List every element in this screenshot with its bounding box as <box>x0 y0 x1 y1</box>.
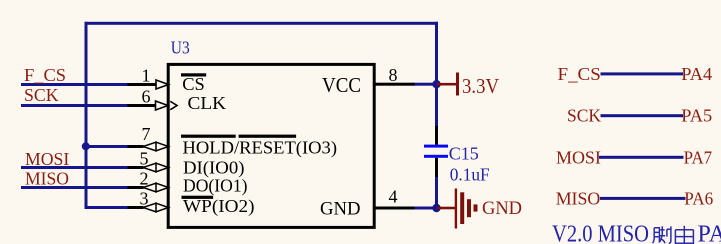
pin 3 IO bowtie arrow <box>143 203 169 212</box>
annotation glyph you (by) <box>675 226 693 243</box>
IC U3 body outline <box>168 64 374 227</box>
svg-text:F_CS: F_CS <box>24 65 66 85</box>
ground symbol bar 2 <box>460 192 464 224</box>
pin name HOLD overline <box>181 135 236 138</box>
svg-text:PA5: PA5 <box>681 106 712 126</box>
capacitor C15 top lead <box>435 126 438 145</box>
pin 1 stub (CS) <box>128 83 157 86</box>
pin 7 stub (HOLD/RESET) <box>128 145 144 148</box>
svg-text:PA: PA <box>698 222 721 244</box>
svg-text:PA4: PA4 <box>681 64 712 84</box>
pin 4 stub (GND) <box>374 207 415 210</box>
pin 3 stub (WP) <box>128 206 144 209</box>
svg-text:0.1uF: 0.1uF <box>450 165 490 185</box>
ground symbol bar 1 <box>455 189 457 229</box>
wire: SCK to PA5 <box>601 114 684 117</box>
pin 5 IO bowtie arrow <box>143 163 169 172</box>
pin 1 input arrow <box>156 80 169 89</box>
svg-text:7: 7 <box>142 124 151 144</box>
wire: pin3 segment from left vertical corner <box>85 206 128 209</box>
svg-text:DO(IO1): DO(IO1) <box>183 176 248 197</box>
junction at GND <box>432 204 440 212</box>
svg-text:HOLD/RESET(IO3): HOLD/RESET(IO3) <box>183 138 338 159</box>
pin 8 stub (VCC) <box>374 83 415 86</box>
pin 6 stub (CLK) <box>128 104 156 107</box>
wire: right vertical below capacitor <box>435 177 438 210</box>
wire: right vertical net (VCC to cap to GND) <box>435 22 438 127</box>
wire: pin8 to 3.3V junction <box>414 83 437 86</box>
svg-text:SCK: SCK <box>24 85 59 105</box>
pin 2 IO bowtie arrow <box>143 183 169 192</box>
ground symbol bar 3 <box>467 199 471 217</box>
power symbol 3.3V lead <box>437 83 457 86</box>
svg-text:SCK: SCK <box>567 106 601 126</box>
svg-text:CLK: CLK <box>188 93 227 113</box>
svg-text:GND: GND <box>482 198 522 219</box>
wire: MOSI to PA7 <box>599 156 684 159</box>
pin 7 IO bowtie arrow <box>143 142 169 151</box>
svg-text:U3: U3 <box>171 38 190 58</box>
wire: F_CS to PA4 <box>601 72 684 75</box>
pin name RESET overline <box>239 135 297 138</box>
capacitor C15 top plate <box>424 145 448 148</box>
svg-text:F_CS: F_CS <box>558 64 601 84</box>
svg-text:4: 4 <box>389 187 398 207</box>
annotation glyph jiao (foot) <box>653 226 671 243</box>
junction at pin7 tap <box>82 142 90 150</box>
svg-text:GND: GND <box>320 199 361 220</box>
wire: pin7 tap from left vertical <box>85 145 128 148</box>
svg-text:MOSI: MOSI <box>556 147 601 167</box>
svg-text:3: 3 <box>140 189 149 209</box>
capacitor C15 bottom plate <box>424 155 448 158</box>
svg-text:V2.0 MISO: V2.0 MISO <box>552 222 649 244</box>
wire: top horizontal net (3.3V rail) <box>85 22 439 25</box>
wire: MISO to PA6 <box>600 197 686 200</box>
svg-text:3.3V: 3.3V <box>462 74 499 98</box>
pin name CS overline <box>181 73 206 76</box>
svg-text:PA6: PA6 <box>684 188 713 208</box>
svg-text:MISO: MISO <box>556 188 601 208</box>
svg-text:VCC: VCC <box>322 73 361 97</box>
svg-text:8: 8 <box>389 65 398 85</box>
pin 2 stub (DO) <box>128 186 144 189</box>
svg-text:MOSI: MOSI <box>25 149 69 169</box>
svg-text:PA7: PA7 <box>684 147 713 167</box>
wire: F_CS net <box>21 83 128 86</box>
pin 6 input arrow <box>156 101 169 110</box>
capacitor C15 bottom lead <box>435 158 438 177</box>
pin 5 stub (DI) <box>128 166 144 169</box>
svg-text:C15: C15 <box>449 144 479 164</box>
wire: left vertical net (WP/HOLD net) <box>85 22 88 209</box>
svg-text:5: 5 <box>140 149 149 169</box>
wire: MOSI net <box>21 166 128 169</box>
ground symbol lead <box>437 207 456 210</box>
svg-text:CS: CS <box>182 74 205 94</box>
svg-text:1: 1 <box>142 66 151 86</box>
wire: MISO net <box>21 186 128 189</box>
svg-text:6: 6 <box>142 87 151 107</box>
pin 6 clock wedge <box>170 101 177 109</box>
ground symbol bar 4 <box>474 204 478 211</box>
power symbol 3.3V bar <box>456 73 459 96</box>
junction at 3.3V <box>432 80 440 88</box>
wire: pin4 to GND junction <box>414 207 437 210</box>
svg-text:WP(IO2): WP(IO2) <box>183 196 255 217</box>
pin name WP overline <box>182 196 214 199</box>
svg-text:2: 2 <box>140 169 149 189</box>
svg-text:MISO: MISO <box>25 169 69 189</box>
wire: SCK net <box>21 104 128 107</box>
